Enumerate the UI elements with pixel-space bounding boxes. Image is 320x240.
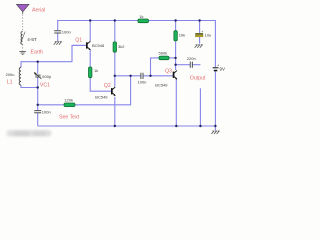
antenna aerial symbol xyxy=(17,4,30,12)
wire L1 bottom lead xyxy=(21,85,38,88)
junction battery to bottom rail xyxy=(214,125,216,127)
svg-text:See Text: See Text xyxy=(59,114,80,120)
junction Q1 collector to rail xyxy=(89,19,91,21)
svg-text:220n: 220n xyxy=(187,56,196,61)
wire 1k bottom to Q2 base xyxy=(90,78,111,92)
junction 3k2 to rail xyxy=(114,19,116,21)
junction VC1 bottom xyxy=(37,86,39,88)
svg-text:Output: Output xyxy=(190,76,206,82)
earth ground symbol xyxy=(19,51,26,54)
junction Q2 emitter to bottom rail xyxy=(114,125,116,127)
svg-text:L1: L1 xyxy=(7,80,13,86)
wire 220n left xyxy=(176,64,190,66)
junction 560k to collector line xyxy=(174,57,176,59)
wire 10k bottom to Q3 collector xyxy=(175,41,177,70)
junction output return to bottom rail xyxy=(199,125,201,127)
svg-text:3k2: 3k2 xyxy=(118,44,125,49)
svg-text:+: + xyxy=(201,30,203,34)
junction 120k feedback branch xyxy=(129,75,131,77)
wire 100n bottom to rail xyxy=(37,113,39,126)
transistor Q2 BC549 xyxy=(111,87,116,96)
transistor Q1 BC548 xyxy=(72,41,91,50)
wire bottom rail xyxy=(38,125,216,127)
svg-text:Q2: Q2 xyxy=(104,83,111,89)
watermark blur bottom-left xyxy=(7,130,52,137)
svg-text:9V: 9V xyxy=(220,66,225,71)
wire 1k emitter top lead xyxy=(89,50,91,67)
svg-text:560k: 560k xyxy=(159,50,168,55)
svg-text:100n: 100n xyxy=(138,80,147,85)
battery B1 9V xyxy=(213,68,219,72)
junction Q3 emitter to bottom rail xyxy=(175,125,177,127)
transistor Q3 BC549 xyxy=(173,71,178,80)
wire VC1 upper xyxy=(37,62,39,74)
wire 220n right xyxy=(193,64,201,66)
junction Q2 collector node xyxy=(114,75,116,77)
svg-text:BC549: BC549 xyxy=(95,95,108,100)
wire top rail left segment xyxy=(58,21,138,31)
wire 10k branch upper xyxy=(175,21,177,31)
wire 3k2 bottom to Q2 collector xyxy=(114,52,116,86)
wire 3k2 branch upper xyxy=(114,21,116,42)
resistor 1k top (supply series) xyxy=(138,19,149,23)
resistor 1k emitter xyxy=(89,67,92,78)
wire 10u to ground xyxy=(199,37,201,44)
wire battery bottom to rail xyxy=(214,71,216,126)
wire 100n decoupling lower xyxy=(57,34,59,42)
svg-text:Earth: Earth xyxy=(31,50,44,56)
resistor 560k xyxy=(159,56,169,60)
aerial coupling coil 4-5T xyxy=(21,31,23,44)
junction 120k / 100n bias node xyxy=(37,104,39,106)
junction 560k to Q3 base xyxy=(149,75,151,77)
svg-text:BC549: BC549 xyxy=(155,82,168,87)
chassis ground top-left xyxy=(54,42,62,45)
junction VC1 top xyxy=(37,61,39,63)
wire 100n to Q3 base xyxy=(143,75,172,77)
wire Q2 emitter xyxy=(114,97,116,126)
svg-text:Q1: Q1 xyxy=(75,38,82,44)
capacitor 100n decoupling top-left xyxy=(54,31,61,33)
inductor L1 xyxy=(19,67,21,85)
wire Q1 collector xyxy=(89,21,91,42)
svg-text:VC1: VC1 xyxy=(40,83,50,89)
wire 10u branch xyxy=(199,21,201,34)
wire aerial lead-in dashed xyxy=(22,15,24,32)
svg-text:Aerial: Aerial xyxy=(32,7,45,13)
wire top rail right segment xyxy=(149,21,216,68)
wire bias 120k left xyxy=(38,104,64,106)
resistor 3k2 xyxy=(113,42,116,52)
svg-text:500p: 500p xyxy=(42,74,52,79)
resistor 120k see text xyxy=(64,103,75,107)
variable capacitor VC1 xyxy=(35,75,40,77)
wire Q2 collector node to 100n xyxy=(115,75,141,77)
svg-text:BC548: BC548 xyxy=(92,43,105,48)
chassis ground under 10u xyxy=(195,45,203,48)
svg-text:10k: 10k xyxy=(179,33,185,38)
resistor 10k xyxy=(174,31,177,41)
svg-text:10u: 10u xyxy=(205,32,212,37)
wire 560k drop xyxy=(151,58,160,76)
capacitor 220n xyxy=(190,62,192,68)
wire 560k right xyxy=(169,57,176,59)
wire coil to earth dashed xyxy=(22,44,24,51)
wire bias 120k right xyxy=(75,76,131,105)
svg-text:1k: 1k xyxy=(139,14,143,19)
svg-text:4-5T: 4-5T xyxy=(27,37,37,42)
wire Q3 emitter xyxy=(175,80,177,127)
wire ground stub battery xyxy=(214,126,216,130)
junction 220n to Q3 collector xyxy=(174,63,176,65)
junction 10u to rail xyxy=(198,19,200,21)
capacitor 100n coupling xyxy=(141,73,143,79)
capacitor 100n bottom xyxy=(34,111,41,113)
svg-text:120k: 120k xyxy=(64,97,73,102)
svg-text:100n: 100n xyxy=(42,109,51,114)
chassis ground bottom-right xyxy=(211,131,219,134)
junction 10k to rail xyxy=(174,19,176,21)
electrolytic capacitor 10u xyxy=(196,33,203,34)
svg-text:100n: 100n xyxy=(62,29,71,34)
svg-text:1k: 1k xyxy=(94,68,98,73)
svg-text:200u: 200u xyxy=(6,72,15,77)
wire output ground stub xyxy=(199,88,201,126)
wire VC1 lower and down-leg xyxy=(37,77,39,110)
wire tank top xyxy=(21,45,86,67)
svg-text:Q3: Q3 xyxy=(165,69,172,75)
junction node dots xyxy=(37,19,217,127)
